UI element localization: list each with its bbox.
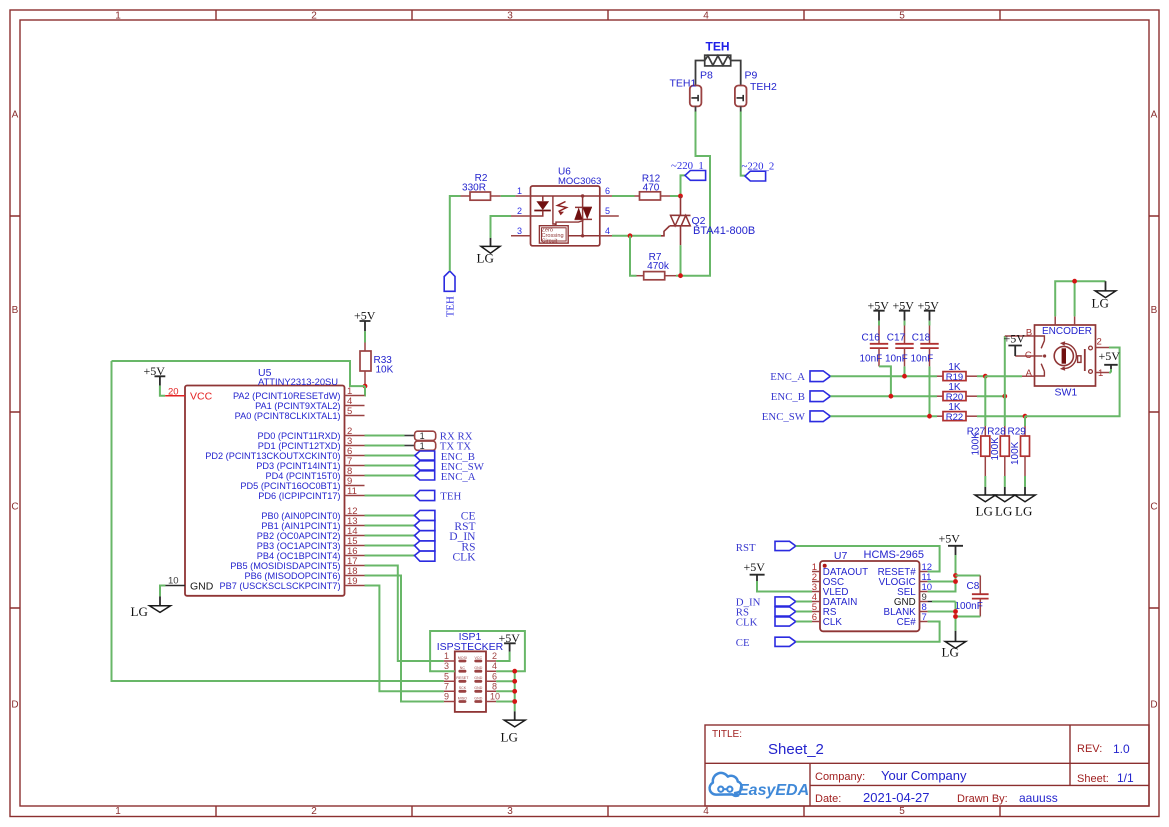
wire U7 pin11 VLOGIC to +5V vertical (green): [928, 581, 956, 583]
svg-text:GND: GND: [894, 597, 916, 608]
wire TEH resistor left to P8 (black): [696, 61, 705, 86]
wire SW1 case pins to LG (green): [1055, 281, 1105, 316]
svg-text:TEH: TEH: [440, 491, 461, 503]
fuse P9: [735, 86, 747, 107]
svg-text:1/1: 1/1: [1117, 771, 1134, 785]
svg-text:20: 20: [168, 387, 179, 398]
svg-text:D: D: [11, 700, 18, 711]
svg-text:2: 2: [311, 11, 317, 22]
wire TEH flag up and to R2 (green): [450, 196, 461, 271]
svg-text:P9: P9: [745, 70, 758, 82]
svg-text:Company:: Company:: [815, 771, 865, 783]
SW1 internal knob: [1054, 341, 1076, 371]
wire Q2 MT1 down to node Y (green): [680, 245, 682, 276]
IC U7 HCMS-2965 body: [820, 549, 924, 631]
netport ENC_B (left): [771, 391, 831, 403]
wire +5V to U7 pin3 (green): [757, 581, 812, 592]
TITLE BLOCK: [705, 725, 1149, 806]
junction C16/ENC_B: [889, 394, 894, 399]
svg-text:10nF: 10nF: [860, 354, 883, 365]
svg-text:11: 11: [347, 486, 357, 497]
svg-text:2: 2: [1097, 337, 1102, 348]
wire +5V to SW1 pin1 (green): [1109, 372, 1111, 374]
svg-text:A: A: [12, 110, 19, 121]
svg-text:PA0 (PCINT8CLKIXTAL1): PA0 (PCINT8CLKIXTAL1): [235, 411, 341, 421]
svg-text:Drawn By:: Drawn By:: [957, 793, 1008, 805]
svg-text:1: 1: [420, 431, 425, 441]
svg-text:6: 6: [605, 186, 610, 196]
netport ENC_SW (left): [762, 411, 831, 423]
capacitor C16: [860, 321, 889, 367]
svg-text:8: 8: [492, 681, 497, 691]
junction gate node: [628, 233, 633, 238]
svg-text:GND: GND: [474, 696, 482, 700]
svg-text:+5V: +5V: [744, 560, 766, 574]
ground LG (SW1 case): [1092, 281, 1116, 310]
ISP1 internal pad labels: [456, 656, 482, 701]
svg-text:6: 6: [492, 671, 497, 681]
netport ~220_2: [742, 160, 775, 181]
wire R20 to junction (green): [977, 395, 1005, 397]
wire RST to U7 pin12 (green): [796, 546, 940, 572]
row ticks right: [1149, 216, 1159, 608]
svg-text:VCC: VCC: [190, 391, 213, 403]
svg-text:R22: R22: [946, 412, 963, 423]
internal LED: [542, 196, 544, 201]
wire row ENC_SW (green): [830, 415, 937, 417]
wire C17 to ENC_A row (green): [904, 366, 906, 376]
pin 6 stub: [600, 195, 612, 197]
svg-text:C17: C17: [887, 333, 906, 344]
svg-text:LG: LG: [976, 504, 993, 519]
svg-text:PD1 (PCINT12TXD): PD1 (PCINT12TXD): [258, 441, 341, 451]
junction node X: [678, 194, 683, 199]
svg-text:LG: LG: [1092, 296, 1109, 311]
junction C8-top node: [953, 573, 958, 578]
svg-text:VCC: VCC: [475, 656, 483, 660]
ground LG (R27): [975, 487, 996, 519]
svg-text:RST: RST: [736, 542, 756, 554]
wire U6 pin6 to R12 (green): [612, 195, 635, 197]
svg-text:MOC3063: MOC3063: [558, 176, 601, 187]
junction C18/ENC_SW: [927, 414, 932, 419]
ground LG (under U5 GND): [131, 596, 171, 619]
svg-text:5: 5: [899, 11, 905, 22]
netport ENC_SW (at U5): [415, 461, 485, 473]
column ticks bottom: [216, 807, 1000, 817]
ISP1 pin numbers left: [444, 651, 449, 702]
junction ISP pin10: [512, 699, 517, 704]
netport RS (at U7): [736, 607, 796, 619]
power flag +5V (C17): [893, 299, 915, 321]
svg-text:1.0: 1.0: [1113, 742, 1130, 756]
wire D_IN to U7 pin4 (green): [796, 601, 812, 603]
svg-text:2: 2: [517, 206, 522, 216]
svg-text:1: 1: [1098, 368, 1103, 379]
svg-text:LG: LG: [501, 730, 518, 745]
svg-text:GND: GND: [474, 676, 482, 680]
netport ENC_B (at U5): [415, 451, 475, 463]
wire TEH resistor right to P9 (black): [731, 61, 741, 86]
U7 right pin stubs 12-7: [920, 572, 928, 622]
wire C18 to ENC_SW row (green): [929, 366, 931, 416]
junction BLANK node: [953, 609, 958, 614]
junction ISP pin8: [512, 689, 517, 694]
svg-text:2: 2: [492, 651, 497, 661]
ground LG (under U6 pin2): [477, 238, 501, 266]
svg-text:NC: NC: [460, 666, 466, 670]
resistor R20: [937, 382, 977, 403]
svg-text:5: 5: [444, 671, 449, 681]
pin 4 stub: [600, 235, 612, 237]
svg-text:100nF: 100nF: [955, 601, 983, 612]
power flag +5V (at ISP pin2): [499, 631, 521, 652]
netport D_IN (at U5): [415, 531, 477, 543]
svg-text:LG: LG: [131, 604, 148, 619]
svg-text:6: 6: [812, 612, 817, 623]
wire pin11 PD6 to flag TEH (green): [365, 495, 415, 497]
junction VLOGIC node: [953, 579, 958, 584]
wire P8 bottom stub (black): [695, 106, 697, 111]
svg-text:+5V: +5V: [1004, 331, 1026, 345]
svg-text:LG: LG: [1015, 504, 1032, 519]
svg-text:R28: R28: [987, 427, 1006, 438]
wire long loop left/down to ISP pin5 (green): [112, 361, 444, 681]
svg-text:PB0 (AIN0PCINT0): PB0 (AIN0PCINT0): [261, 511, 340, 521]
wire GND bus verticals (green): [496, 671, 515, 711]
svg-text:1: 1: [444, 651, 449, 661]
junction R22/R29/encoder SW node: [1023, 414, 1028, 419]
U7 left pin stubs 1-6: [812, 572, 820, 622]
svg-text:ENC_A: ENC_A: [770, 371, 805, 383]
svg-text:B: B: [1026, 328, 1032, 339]
wire U6 pin4 to gate node (green): [612, 235, 661, 237]
pin 3 stub: [511, 235, 531, 237]
netport RST (at U5): [415, 521, 476, 533]
resistor R2: [461, 173, 501, 200]
internal light arrow: [558, 202, 567, 212]
wire R29 to LG (green): [1024, 476, 1026, 487]
svg-text:LG: LG: [942, 645, 959, 660]
svg-text:P8: P8: [700, 70, 713, 82]
wire A node to encoder pin A (green): [985, 375, 1022, 377]
internal zero crossing circuit box: [539, 226, 568, 243]
svg-text:PD4 (PCINT15T0): PD4 (PCINT15T0): [265, 471, 340, 481]
SW1 pin 2: [1096, 347, 1110, 349]
wire loop ISP pin3 to pin4 over the top (green): [430, 631, 525, 671]
opto-triac U6 MOC3063: [511, 167, 619, 246]
svg-text:ATTINY2313-20SU: ATTINY2313-20SU: [258, 376, 338, 387]
svg-text:10nF: 10nF: [885, 354, 908, 365]
svg-text:2021-04-27: 2021-04-27: [863, 790, 930, 805]
wire R19 node down to R27 (green): [984, 376, 986, 426]
wire C16 to ENC_B row (green): [879, 366, 891, 396]
wire pin3 PD1 to connector TX (green+black): [365, 445, 405, 447]
svg-text:10: 10: [168, 576, 179, 587]
wire R12 to node X (green): [670, 195, 681, 197]
svg-text:Sheet:: Sheet:: [1077, 773, 1109, 785]
svg-text:~220_1: ~220_1: [671, 160, 704, 172]
svg-text:SW1: SW1: [1055, 387, 1078, 399]
svg-text:U7: U7: [834, 550, 848, 562]
svg-text:Date:: Date:: [815, 793, 841, 805]
svg-text:C: C: [11, 502, 18, 513]
netport CE (at U7): [736, 637, 796, 649]
svg-text:TEH: TEH: [445, 296, 457, 317]
svg-text:LG: LG: [477, 251, 494, 266]
junction R33/reset node: [363, 384, 368, 389]
ground LG (U7): [942, 631, 966, 660]
svg-text:BTA41-800B: BTA41-800B: [693, 225, 755, 237]
junction ISP pin6: [512, 679, 517, 684]
svg-text:C: C: [1150, 502, 1157, 513]
rotary encoder SW1 body: [1035, 325, 1096, 399]
svg-text:5: 5: [347, 406, 352, 417]
resistor R29: [1008, 426, 1030, 476]
wire pin8 PD4 to flag ENC_A (green): [365, 475, 415, 477]
power flag +5V (SW1 C pin): [1004, 331, 1026, 356]
ISP1 right pin stubs 2,4,6,8,10: [486, 661, 496, 702]
wire node X up to flag ~220_1 (green): [681, 175, 686, 196]
wire CE to U7 pin7 (green): [796, 622, 940, 642]
wires pins 12-16 to flags CE,RST,D_IN,RS,CLK (green): [365, 516, 415, 556]
svg-text:D: D: [1150, 700, 1157, 711]
svg-text:PB6 (MISODOPCINT6): PB6 (MISODOPCINT6): [245, 571, 341, 581]
junction node Y: [678, 273, 683, 278]
wire R19 to junction (green): [977, 375, 985, 377]
svg-text:4: 4: [605, 226, 610, 236]
resistor TEH (heating element, black): [705, 55, 731, 66]
svg-text:MISO: MISO: [458, 696, 467, 700]
internal inner-box partial: [553, 196, 556, 226]
svg-text:5: 5: [899, 806, 905, 817]
svg-text:GND: GND: [190, 581, 214, 593]
svg-text:A: A: [1151, 110, 1158, 121]
wire R7 to node Y (green): [676, 275, 681, 277]
svg-text:10K: 10K: [376, 365, 394, 376]
svg-text:CLK: CLK: [736, 617, 758, 629]
wire row ENC_A (green): [830, 375, 937, 377]
wire pin2 PD0 to connector RX (green+black): [365, 435, 405, 437]
svg-text:C18: C18: [912, 333, 931, 344]
svg-text:4: 4: [703, 806, 709, 817]
internal gate line to ZC box: [556, 220, 584, 225]
capacitor C17: [885, 321, 914, 367]
wire row ENC_B (green): [830, 395, 937, 397]
svg-text:R29: R29: [1008, 427, 1027, 438]
U7 right pin numbers 12,11,10,8,7: [922, 562, 933, 623]
netport TEH (at U5): [415, 490, 462, 502]
ISP1 left pin stubs 1,3,5,7,9: [444, 661, 455, 702]
svg-text:470: 470: [643, 183, 660, 194]
svg-text:LG: LG: [995, 504, 1012, 519]
svg-text:~220_2: ~220_2: [742, 160, 775, 172]
power flag +5V (C18): [918, 299, 940, 321]
svg-text:PD0 (PCINT11RXD): PD0 (PCINT11RXD): [257, 431, 340, 441]
svg-text:CE#: CE#: [897, 617, 917, 628]
wire R22 to junction (green): [977, 415, 1025, 417]
svg-text:TEH1: TEH1: [670, 78, 697, 90]
wire +5V to ISP pin2 (green): [496, 652, 510, 661]
svg-text:CLK: CLK: [453, 551, 477, 563]
wire P9 to flag ~220_2 (green): [741, 112, 745, 176]
netport D_IN (at U7): [736, 597, 796, 609]
netport RS (at U5): [415, 541, 476, 553]
resistor R27: [967, 426, 990, 476]
svg-text:330R: 330R: [462, 182, 486, 193]
svg-text:B: B: [12, 305, 19, 316]
svg-text:Sheet_2: Sheet_2: [768, 741, 824, 758]
power flag +5V (VCC, left of U5): [144, 364, 166, 386]
svg-text:1: 1: [517, 186, 522, 196]
column ticks top: [216, 10, 1000, 20]
SW1 pin A: [1022, 375, 1035, 377]
netport RST (at U7): [736, 541, 796, 554]
SW1 pin C: [1015, 355, 1034, 357]
SW1 internal rotary contacts: [1035, 336, 1045, 376]
svg-text:PB5 (MOSIDISDAPCINT5): PB5 (MOSIDISDAPCINT5): [230, 561, 340, 571]
resistor R12: [635, 173, 671, 200]
svg-text:100K: 100K: [971, 432, 982, 456]
svg-text:7: 7: [922, 612, 927, 623]
capacitor C8: [955, 576, 989, 617]
ground LG (R28): [995, 487, 1016, 519]
wire CLK to U7 pin6 (green): [796, 621, 812, 623]
capacitor C18: [911, 321, 939, 367]
power flag +5V (C16): [868, 299, 890, 321]
svg-text:4: 4: [492, 661, 497, 671]
ground LG (R29): [1015, 487, 1036, 519]
wire P9 bottom stub (black): [740, 106, 742, 111]
svg-text:PB7 (USCKSCLSCKPCINT7): PB7 (USCKSCLSCKPCINT7): [220, 581, 341, 591]
svg-text:PB4 (OC1BPCINT4): PB4 (OC1BPCINT4): [257, 551, 341, 561]
svg-text:TEH2: TEH2: [750, 81, 777, 93]
junction case pins: [1072, 279, 1077, 284]
svg-text:HCMS-2965: HCMS-2965: [864, 549, 925, 561]
wire B node up to encoder pin B (green): [1004, 336, 1006, 396]
svg-text:3: 3: [507, 11, 513, 22]
wire pin19 PB7 to ISP pin7 (green): [365, 586, 444, 692]
power flag +5V (U7 right): [939, 531, 964, 555]
svg-text:REV:: REV:: [1077, 743, 1102, 755]
svg-text:4: 4: [703, 11, 709, 22]
svg-text:3: 3: [517, 226, 522, 236]
connector RX: [415, 430, 473, 442]
wire R20 node down to R28 (green): [1004, 396, 1006, 426]
svg-text:PD5 (PCINT16OC0BT1): PD5 (PCINT16OC0BT1): [240, 481, 340, 491]
wire RS to U7 pin5 (green): [796, 611, 812, 613]
svg-text:100K: 100K: [1010, 441, 1021, 465]
svg-text:5: 5: [605, 206, 610, 216]
U7 pin names left: [823, 567, 868, 628]
svg-text:PB3 (OC1APCINT3): PB3 (OC1APCINT3): [257, 541, 341, 551]
internal output triac: [582, 196, 584, 236]
netport TEH (vertical, bottom left): [444, 271, 456, 317]
svg-text:10: 10: [490, 692, 500, 702]
ISP1 internal pads: [458, 660, 482, 703]
U5 pin number labels 1..19: [347, 386, 358, 587]
wire pin17 PB5 to ISP pin1 (green): [365, 566, 444, 662]
svg-text:C8: C8: [967, 581, 980, 592]
svg-text:aauuss: aauuss: [1019, 791, 1058, 805]
netport ENC_A (left): [770, 371, 830, 383]
junction C8-bottom node: [953, 614, 958, 619]
svg-text:C16: C16: [862, 333, 881, 344]
svg-text:+5V: +5V: [939, 531, 961, 545]
svg-text:TEH: TEH: [706, 40, 730, 54]
svg-text:100K: 100K: [990, 437, 1001, 461]
EasyEDA logo: [710, 773, 810, 799]
wire GND pin to LG (green): [160, 586, 166, 597]
wire +5V down to U7 pin10 SEL (green): [928, 555, 956, 592]
svg-text:PD2 (PCINT13CKOUTXCKINT0): PD2 (PCINT13CKOUTXCKINT0): [205, 451, 340, 461]
svg-text:PB1 (AIN1PCINT1): PB1 (AIN1PCINT1): [261, 521, 340, 531]
wire SW node to encoder pin 2 via right loop (green): [1025, 348, 1120, 417]
svg-text:+5V: +5V: [1099, 349, 1121, 363]
connector ISP1 ISPSTECKER body: [437, 631, 504, 712]
pin 5 stub: [600, 215, 619, 217]
svg-text:9: 9: [444, 692, 449, 702]
wire U7 pin8 BLANK to GND vertical (green): [928, 611, 956, 613]
wire +5V to R33 (green): [364, 331, 366, 342]
internal junction dots: [581, 194, 584, 197]
netport ~220_1: [671, 160, 706, 180]
svg-text:GND: GND: [474, 666, 482, 670]
wire pin6 PD2 to flag ENC_B (green): [365, 455, 415, 457]
netport CLK (at U5): [415, 551, 477, 563]
wire R27 to LG (green): [984, 476, 986, 487]
svg-text:PB2 (OC0APCINT2): PB2 (OC0APCINT2): [257, 531, 341, 541]
wire U7 pin9 GND right (black pin + green): [928, 601, 932, 603]
junction R19/R27/encoder A node: [983, 374, 988, 379]
svg-text:RESET: RESET: [456, 676, 469, 680]
svg-text:Your Company: Your Company: [881, 768, 967, 783]
triac Q2 BTA41-800B: [661, 196, 755, 245]
svg-text:ENC_B: ENC_B: [771, 391, 805, 403]
wire reset node to long loop (green): [112, 361, 366, 386]
connector TX: [415, 440, 472, 452]
fuse P8: [690, 86, 702, 107]
wire R2 to U6 pin1 (green): [501, 195, 516, 197]
svg-text:PD3 (PCINT14INT1): PD3 (PCINT14INT1): [256, 461, 340, 471]
SW1 pin B: [1005, 335, 1035, 337]
resistor R28: [987, 426, 1009, 476]
resistor R7: [637, 252, 677, 280]
pin 10 GND: [166, 576, 214, 593]
pin 20 VCC: [165, 387, 212, 403]
junction ISP pin4: [512, 669, 517, 674]
svg-text:CE: CE: [736, 637, 750, 649]
SW1 top case pins: [1055, 316, 1074, 325]
internal top rail pin1-pin6: [531, 195, 600, 197]
svg-text:PD6 (ICPIPCINT17): PD6 (ICPIPCINT17): [258, 491, 340, 501]
wire R28 to LG (green): [1004, 476, 1006, 487]
IC U5 ATTINY2313-20SU body: [185, 367, 345, 596]
power flag +5V (SW1 pin1): [1099, 349, 1121, 373]
U5 right-side pin stubs (pins 1,4,5,2,3,6,7,8,9,11,12-19): [345, 396, 365, 586]
svg-text:7: 7: [444, 681, 449, 691]
svg-text:EasyEDA: EasyEDA: [738, 782, 809, 799]
pin 2 stub: [511, 215, 531, 217]
svg-text:2: 2: [311, 806, 317, 817]
svg-text:Circuit: Circuit: [542, 238, 558, 244]
svg-text:CLK: CLK: [823, 617, 843, 628]
ground LG (ISP): [501, 711, 526, 744]
netport CE (at U5): [415, 510, 476, 522]
svg-text:SCK: SCK: [459, 686, 467, 690]
svg-text:PA1 (PCINT9XTAL2): PA1 (PCINT9XTAL2): [255, 401, 340, 411]
svg-text:TITLE:: TITLE:: [712, 729, 742, 740]
